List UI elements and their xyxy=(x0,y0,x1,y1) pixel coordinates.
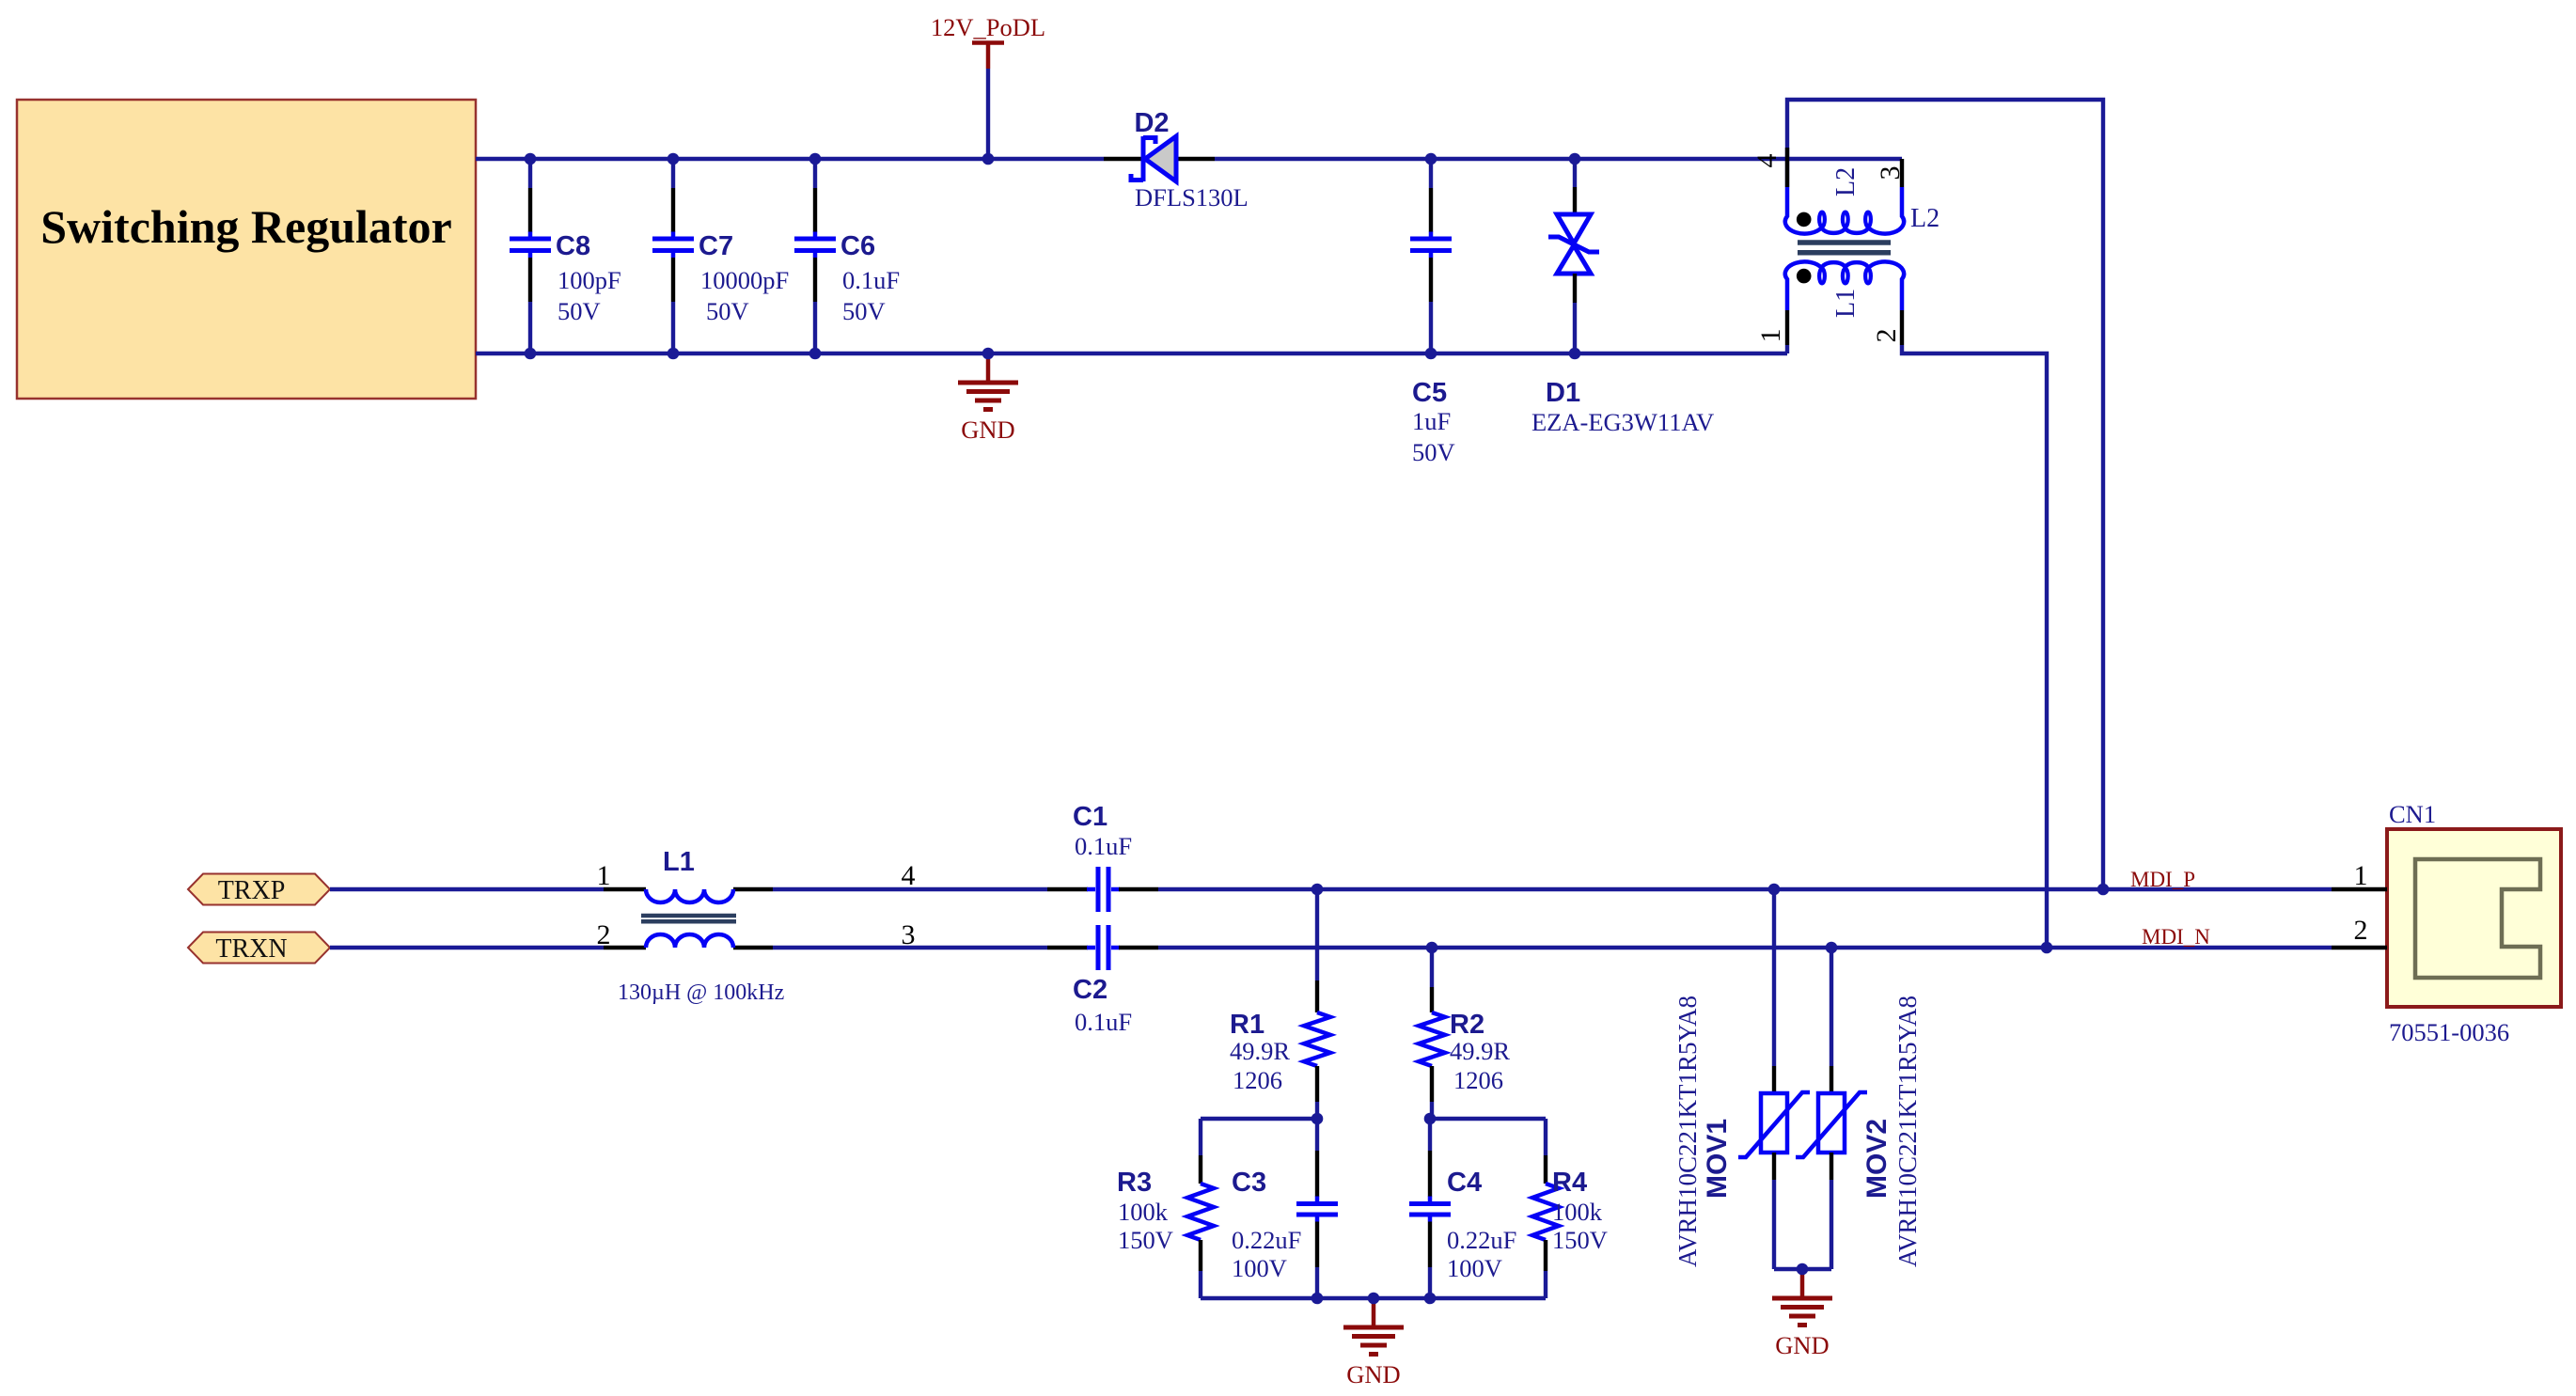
capacitor C5 xyxy=(1410,159,1452,353)
svg-text:130µH @ 100kHz: 130µH @ 100kHz xyxy=(618,980,784,1005)
svg-text:1206: 1206 xyxy=(1233,1066,1282,1094)
capacitor C4 xyxy=(1409,1119,1451,1298)
svg-text:1uF: 1uF xyxy=(1412,407,1451,435)
svg-text:12V_PoDL: 12V_PoDL xyxy=(931,13,1045,41)
svg-text:C8: C8 xyxy=(556,231,590,261)
svg-text:49.9R: 49.9R xyxy=(1230,1037,1290,1065)
svg-text:2: 2 xyxy=(2354,915,2368,946)
svg-text:70551-0036: 70551-0036 xyxy=(2389,1018,2509,1046)
ground GND (MOV) xyxy=(1772,1269,1832,1359)
svg-text:C1: C1 xyxy=(1073,802,1107,832)
port TRXN xyxy=(188,933,330,965)
label MOV1 xyxy=(1673,996,1733,1267)
Switching Regulator block xyxy=(17,100,476,399)
svg-text:DFLS130L: DFLS130L xyxy=(1135,183,1249,212)
resistor R1 xyxy=(1304,889,1330,1119)
label R4 xyxy=(1552,1168,1608,1254)
label R3 xyxy=(1117,1168,1173,1254)
label C1 xyxy=(1073,802,1132,860)
svg-text:C6: C6 xyxy=(840,231,875,261)
CN1 pin 2 xyxy=(2332,915,2387,948)
transformer L2 pin 1 xyxy=(1755,310,1787,353)
svg-text:AVRH10C221KT1R5YA8: AVRH10C221KT1R5YA8 xyxy=(1673,996,1702,1267)
junction dots bottom section xyxy=(1312,884,2110,1305)
wire MOV2 from MDI_N xyxy=(1830,948,1833,1066)
svg-text:TRXP: TRXP xyxy=(218,876,286,905)
svg-text:L1: L1 xyxy=(663,847,695,877)
svg-text:R1: R1 xyxy=(1230,1010,1264,1040)
svg-text:0.22uF: 0.22uF xyxy=(1232,1226,1301,1254)
svg-text:100k: 100k xyxy=(1552,1198,1603,1226)
svg-text:GND: GND xyxy=(1346,1360,1400,1388)
svg-text:R2: R2 xyxy=(1450,1010,1484,1040)
svg-text:C2: C2 xyxy=(1073,975,1107,1005)
svg-text:1206: 1206 xyxy=(1453,1066,1503,1094)
svg-text:GND: GND xyxy=(1775,1331,1829,1359)
connector CN1 box xyxy=(2387,829,2561,1007)
svg-text:MOV2: MOV2 xyxy=(1861,1119,1893,1199)
svg-text:TRXN: TRXN xyxy=(215,934,287,964)
wire bottom bus from regulator to L2 pin 1 xyxy=(476,352,1787,355)
svg-text:C5: C5 xyxy=(1412,378,1447,408)
wire TRXP / MDI_P line xyxy=(330,887,2332,891)
svg-text:AVRH10C221KT1R5YA8: AVRH10C221KT1R5YA8 xyxy=(1893,996,1922,1267)
common-mode choke L1 winding 1 xyxy=(604,889,773,902)
svg-text:10000pF: 10000pF xyxy=(700,266,789,294)
svg-text:C7: C7 xyxy=(699,231,733,261)
svg-text:MDI_P: MDI_P xyxy=(2130,868,2195,891)
svg-text:R4: R4 xyxy=(1552,1168,1587,1198)
capacitor C6 xyxy=(794,159,836,353)
label C8 xyxy=(556,231,621,325)
label C3 xyxy=(1232,1168,1301,1282)
choke pin numbers xyxy=(597,860,916,950)
varistor MOV2 xyxy=(1796,1066,1867,1269)
svg-text:0.1uF: 0.1uF xyxy=(842,266,900,294)
label R2 xyxy=(1450,1010,1510,1094)
label C4 xyxy=(1447,1168,1516,1282)
label C6 xyxy=(840,231,900,325)
label L1 xyxy=(618,847,784,1005)
power symbol 12V_PoDL xyxy=(931,13,1045,159)
capacitor C7 xyxy=(652,159,694,353)
svg-text:MOV1: MOV1 xyxy=(1702,1119,1733,1199)
svg-text:1: 1 xyxy=(1755,329,1786,343)
resistor R2 xyxy=(1419,948,1445,1119)
transformer L2 top loop wire (pin 4 to MDI_P) xyxy=(1787,100,2103,889)
common-mode choke L1 winding 2 xyxy=(604,934,773,948)
CN1 pin 1 xyxy=(2332,860,2387,891)
svg-text:0.1uF: 0.1uF xyxy=(1075,832,1132,860)
svg-text:100V: 100V xyxy=(1232,1254,1287,1282)
port TRXP xyxy=(188,874,330,906)
svg-text:100k: 100k xyxy=(1118,1198,1169,1226)
wire TRXN / MDI_N line xyxy=(330,946,2332,949)
ground GND (RC network) xyxy=(1343,1298,1404,1388)
svg-text:C4: C4 xyxy=(1447,1168,1482,1198)
label D2 xyxy=(1134,108,1248,212)
transformer L2 core xyxy=(1798,243,1891,253)
diode D2 DFLS130L xyxy=(1104,136,1215,181)
capacitor C1 xyxy=(1047,867,1158,912)
label R1 xyxy=(1230,1010,1290,1094)
svg-text:MDI_N: MDI_N xyxy=(2142,925,2210,949)
svg-text:49.9R: 49.9R xyxy=(1450,1037,1510,1065)
svg-text:D1: D1 xyxy=(1546,378,1580,408)
capacitor C3 xyxy=(1296,1119,1338,1298)
svg-text:50V: 50V xyxy=(558,297,601,325)
svg-text:150V: 150V xyxy=(1118,1226,1173,1254)
svg-text:100V: 100V xyxy=(1447,1254,1502,1282)
svg-text:L2: L2 xyxy=(1831,167,1861,196)
wire MOV1 from MDI_P xyxy=(1772,889,1776,1066)
svg-text:R3: R3 xyxy=(1117,1168,1152,1198)
svg-text:150V: 150V xyxy=(1552,1226,1608,1254)
svg-text:L1: L1 xyxy=(1831,289,1861,318)
label C2 xyxy=(1073,975,1132,1036)
capacitor C8 xyxy=(510,159,551,353)
svg-text:0.22uF: 0.22uF xyxy=(1447,1226,1516,1254)
transformer L2 pin 2 wire to MDI_N xyxy=(1871,310,2047,948)
svg-text:CN1: CN1 xyxy=(2389,800,2436,828)
svg-text:0.1uF: 0.1uF xyxy=(1075,1008,1132,1036)
svg-text:C3: C3 xyxy=(1232,1168,1266,1198)
svg-text:3: 3 xyxy=(1875,166,1906,180)
capacitor C2 xyxy=(1047,925,1158,970)
wire RC network frame xyxy=(1201,1119,1546,1298)
svg-text:Switching Regulator: Switching Regulator xyxy=(40,200,452,253)
svg-text:EZA-EG3W11AV: EZA-EG3W11AV xyxy=(1531,408,1714,436)
svg-text:3: 3 xyxy=(902,919,916,950)
svg-text:50V: 50V xyxy=(842,297,886,325)
varistor MOV1 xyxy=(1738,1066,1810,1269)
svg-text:4: 4 xyxy=(902,860,916,891)
ground GND (top) xyxy=(958,353,1018,444)
transformer L2 top winding xyxy=(1785,187,1904,234)
label D1 xyxy=(1531,378,1714,436)
transformer L2 pin 4 xyxy=(1751,148,1787,187)
label C7 xyxy=(699,231,789,325)
resistor R4 xyxy=(1532,1119,1559,1298)
label MOV2 xyxy=(1861,996,1922,1267)
svg-text:2: 2 xyxy=(597,919,611,950)
svg-text:2: 2 xyxy=(1871,329,1902,343)
wire MOV bottom xyxy=(1774,1267,1831,1271)
svg-text:1: 1 xyxy=(2354,860,2368,891)
junction dots top section xyxy=(525,153,1581,360)
svg-text:D2: D2 xyxy=(1134,108,1169,138)
svg-text:100pF: 100pF xyxy=(558,266,621,294)
svg-text:50V: 50V xyxy=(706,297,749,325)
svg-text:L2: L2 xyxy=(1910,204,1940,233)
transformer L2 bottom winding (L1 half) xyxy=(1785,261,1904,310)
svg-text:50V: 50V xyxy=(1412,438,1455,466)
svg-text:4: 4 xyxy=(1751,154,1783,168)
transformer L2 pin 3 xyxy=(1875,159,1906,187)
choke L1 core xyxy=(641,916,736,921)
svg-text:GND: GND xyxy=(961,416,1014,444)
resistor R3 xyxy=(1187,1119,1214,1298)
label C5 xyxy=(1412,378,1455,466)
TVS diode D1 EZA-EG3W11AV xyxy=(1548,159,1599,353)
wire top bus from regulator to L2 pin 3 xyxy=(476,157,1902,161)
svg-text:1: 1 xyxy=(597,860,611,891)
